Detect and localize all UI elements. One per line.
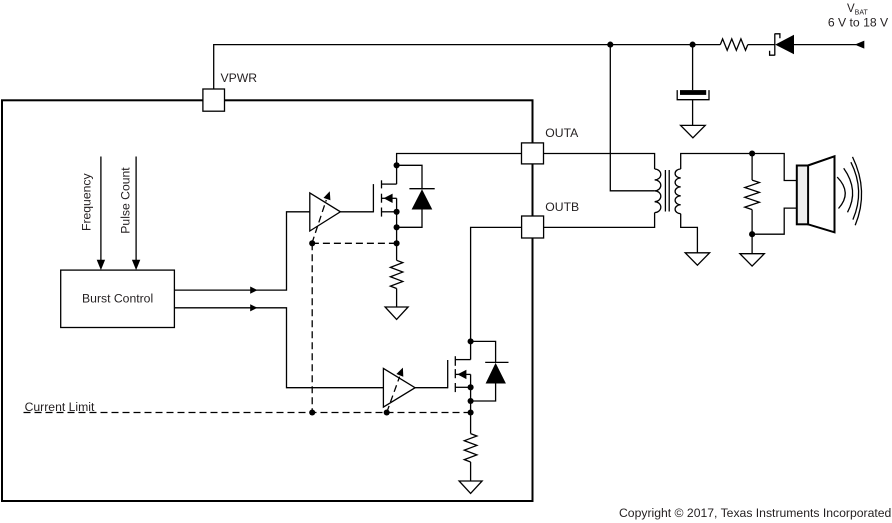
ground under R1 bbox=[385, 307, 408, 319]
wire R1 to ground bbox=[396, 289, 398, 308]
node junction current limit end bbox=[468, 409, 474, 415]
resistor R3 bbox=[745, 180, 760, 210]
node junction dashed tap on Q1 source bbox=[394, 240, 400, 246]
wire diode to VBAT arrow bbox=[794, 44, 856, 46]
ground under R2 bbox=[459, 481, 482, 493]
ground under R3 bbox=[740, 254, 764, 266]
wire transformer secondary top to speaker bbox=[681, 154, 797, 181]
node Current Limit net label bbox=[25, 400, 95, 414]
node OUTA label bbox=[545, 126, 579, 140]
wire R3 top lead bbox=[751, 154, 753, 181]
burst control block U3 bbox=[61, 270, 175, 327]
wire dashed Q1 source sense bbox=[312, 242, 397, 244]
capacitor C1 bbox=[677, 90, 709, 100]
resistor R4 series VBAT bbox=[720, 39, 748, 50]
wire R3 bottom to ground bbox=[751, 234, 753, 254]
node junction dashed corner bbox=[309, 240, 315, 246]
node VBAT label bbox=[828, 3, 889, 30]
wire U1 output to Q1 gate bbox=[340, 211, 373, 213]
wire OUTB to Q2 drain bbox=[471, 227, 522, 359]
svg-text:Copyright © 2017, Texas Instru: Copyright © 2017, Texas Instruments Inco… bbox=[619, 506, 891, 520]
diode D2 body diode of Q2 bbox=[471, 341, 509, 401]
wire rail segment resistor to diode bar bbox=[748, 44, 775, 46]
node junction dashed vertical on current limit bbox=[309, 409, 315, 415]
node Frequency input label bbox=[79, 173, 93, 231]
wire transformer primary bottom to OUTB bbox=[544, 213, 655, 228]
node junction U2 control tap bbox=[384, 409, 390, 415]
svg-text:OUTB: OUTB bbox=[545, 200, 579, 214]
wire transformer secondary bottom to ground bbox=[681, 214, 698, 253]
node junction Q2 drain / D2 bbox=[468, 338, 474, 344]
wire Q1 source down to R1 bbox=[396, 212, 398, 260]
transistor Q1 upper MOSFET bbox=[373, 180, 396, 216]
pin VPWR bbox=[203, 89, 225, 111]
speaker SPK1 bbox=[797, 156, 862, 232]
wire OUTA to transformer primary bbox=[544, 154, 655, 170]
pin OUTA bbox=[522, 143, 544, 164]
wire capacitor to ground bbox=[692, 100, 694, 126]
transistor Q2 lower MOSFET bbox=[448, 356, 471, 392]
wire dashed Current Limit net bbox=[24, 412, 471, 414]
svg-text:Frequency: Frequency bbox=[79, 173, 93, 231]
diode D3 schottky bbox=[770, 34, 794, 56]
node junction Q1 drain / D1 bbox=[394, 162, 400, 168]
VBAT input arrowhead bbox=[855, 41, 865, 49]
node VPWR label bbox=[221, 71, 258, 85]
node junction Q2 source/body bbox=[468, 384, 474, 390]
wire Q1 drain riser to OUTA rail bbox=[397, 154, 522, 185]
node junction D2 anode return bbox=[468, 398, 474, 404]
copyright note bbox=[619, 506, 891, 520]
svg-text:OUTA: OUTA bbox=[545, 126, 579, 140]
node junction D1 anode return bbox=[394, 224, 400, 230]
wire capacitor drop bbox=[692, 45, 694, 91]
transformer T1 bbox=[655, 169, 681, 214]
node junction Q1 source/body bbox=[394, 209, 400, 215]
wire dashed vertical sense line bbox=[311, 243, 313, 412]
node junction rail/transformer tap bbox=[607, 42, 613, 48]
node junction R3 bottom / speaker return bbox=[749, 231, 755, 237]
resistor R1 bbox=[390, 260, 402, 288]
wire U2 output to Q2 gate bbox=[415, 387, 448, 389]
wire Burst Control output B to lower driver bbox=[174, 304, 383, 388]
wire R3 bottom lead bbox=[751, 210, 753, 235]
diode D1 body diode of Q1 bbox=[397, 165, 435, 227]
wire dashed current-limit control into U1 bbox=[312, 191, 331, 243]
node junction secondary top / R3 bbox=[749, 150, 755, 156]
wire transformer center tap to rail bbox=[610, 45, 654, 191]
ground transformer secondary bbox=[685, 253, 709, 265]
wire Q2 source down to R2 bbox=[470, 387, 472, 433]
op-amp U2 lower gate driver bbox=[383, 368, 415, 407]
IC boundary box bbox=[2, 100, 533, 501]
op-amp U1 upper gate driver bbox=[310, 193, 341, 231]
wire R2 to ground bbox=[470, 462, 472, 481]
svg-text:Burst Control: Burst Control bbox=[82, 291, 153, 305]
wire top rail from VPWR riser to diode bbox=[214, 45, 721, 89]
node junction rail/capacitor bbox=[690, 42, 696, 48]
wire Pulse Count arrow into Burst Control bbox=[132, 157, 140, 271]
svg-text:Pulse Count: Pulse Count bbox=[119, 167, 133, 234]
resistor R2 bbox=[464, 434, 477, 462]
svg-text:VPWR: VPWR bbox=[221, 71, 258, 85]
node Pulse Count input label bbox=[119, 167, 133, 234]
wire speaker return bbox=[752, 208, 796, 234]
svg-text:6 V to 18 V: 6 V to 18 V bbox=[828, 16, 889, 30]
ground under capacitor bbox=[681, 125, 706, 137]
pin OUTB bbox=[522, 216, 544, 238]
wire Burst Control output A to upper driver bbox=[174, 212, 309, 294]
wire dashed current-limit control into U2 bbox=[387, 368, 404, 413]
wire Frequency arrow into Burst Control bbox=[97, 157, 105, 271]
node OUTB label bbox=[545, 200, 579, 214]
